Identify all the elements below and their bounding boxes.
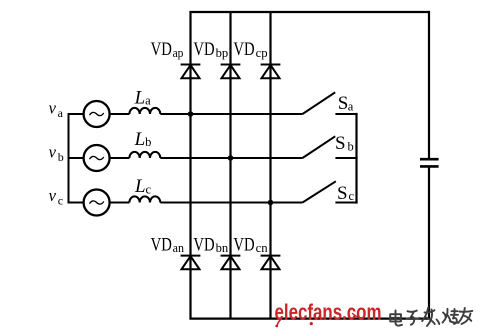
- diode VDbp: [221, 65, 241, 79]
- wire: phase b (source to inductor): [110, 157, 129, 159]
- svg-text:b: b: [348, 139, 354, 153]
- switch Sb contact wire: [335, 157, 357, 159]
- diode VDbn: [221, 256, 241, 270]
- inductor Lb: [129, 152, 160, 158]
- svg-text:L: L: [134, 176, 146, 197]
- char dian: [390, 311, 402, 326]
- svg-text:bn: bn: [216, 241, 229, 255]
- svg-text:VD: VD: [151, 39, 172, 60]
- node c (junction dot): [268, 200, 274, 206]
- svg-text:b: b: [145, 135, 151, 149]
- svg-text:S: S: [335, 133, 346, 154]
- svg-text:VD: VD: [193, 39, 214, 60]
- svg-text:an: an: [173, 241, 185, 255]
- wire: right DC branch (top rail to capacitor): [428, 11, 430, 159]
- diode VDan: [181, 256, 201, 270]
- wire: top DC rail: [189, 11, 429, 13]
- char you: [458, 308, 472, 324]
- switch Sa blade: [303, 92, 336, 114]
- svg-text:elecfans.com: elecfans.com: [275, 300, 382, 325]
- svg-text:cp: cp: [256, 46, 268, 60]
- wire: phase b stub (bus to source): [68, 157, 84, 159]
- node a (junction dot): [188, 111, 194, 117]
- wire: phase a (source to inductor): [110, 113, 129, 115]
- source vb (AC source): [84, 145, 110, 171]
- wire: phase c (inductor to switch): [160, 202, 302, 204]
- svg-text:v: v: [49, 99, 57, 118]
- watermark: elecfans.com logo: [275, 300, 382, 328]
- wire: diode leg column b: [229, 12, 231, 319]
- svg-text:c: c: [146, 182, 152, 196]
- svg-text:c: c: [58, 194, 63, 208]
- node b (junction dot): [228, 155, 234, 161]
- capacitor C (DC link): [420, 159, 439, 166]
- svg-text:L: L: [134, 129, 146, 150]
- svg-text:bp: bp: [216, 46, 229, 60]
- svg-text:v: v: [49, 186, 57, 205]
- inductor Lc: [129, 196, 160, 202]
- svg-text:VD: VD: [233, 234, 254, 255]
- source va (AC source): [84, 101, 110, 127]
- svg-text:S: S: [337, 183, 348, 204]
- inductor La: [129, 108, 160, 114]
- wire: bottom DC rail: [189, 318, 430, 320]
- switch Sc contact wire: [335, 202, 357, 204]
- char zi: [407, 311, 420, 325]
- svg-text:a: a: [58, 106, 64, 120]
- svg-text:v: v: [49, 143, 57, 162]
- diode VDap: [181, 65, 201, 79]
- char shao: [443, 309, 459, 324]
- source vc (AC source): [84, 190, 110, 216]
- wire: phase c (source to inductor): [110, 202, 129, 204]
- svg-text:b: b: [58, 150, 64, 164]
- svg-text:VD: VD: [233, 39, 254, 60]
- wire: diode leg column c: [269, 12, 271, 319]
- svg-text:L: L: [134, 87, 146, 108]
- diode VDcn: [261, 256, 281, 270]
- watermark: Chinese characters (drawn strokes): [390, 308, 472, 327]
- diode VDcp: [261, 65, 281, 79]
- wire: left source bus: [68, 114, 70, 203]
- svg-text:a: a: [348, 99, 354, 113]
- wire: phase c stub (bus to source): [68, 202, 84, 204]
- wire: phase a (inductor to switch): [160, 113, 302, 115]
- svg-text:cn: cn: [256, 241, 269, 255]
- svg-text:ap: ap: [173, 46, 184, 60]
- wire: right DC branch (capacitor to bottom rail): [428, 166, 430, 318]
- switch Sa contact wire: [335, 113, 357, 115]
- wire: phase b (inductor to switch): [160, 157, 302, 159]
- wire: diode leg column a: [189, 12, 191, 319]
- char fa: [422, 308, 439, 327]
- svg-text:S: S: [338, 93, 349, 114]
- switch Sc blade: [303, 181, 336, 202]
- switch Sb blade: [303, 136, 336, 158]
- wire: phase a stub (bus to source): [68, 113, 84, 115]
- svg-text:VD: VD: [151, 234, 172, 255]
- wire: switch common bus: [355, 113, 357, 204]
- svg-text:c: c: [349, 189, 355, 203]
- svg-text:a: a: [145, 94, 151, 108]
- svg-text:VD: VD: [193, 234, 214, 255]
